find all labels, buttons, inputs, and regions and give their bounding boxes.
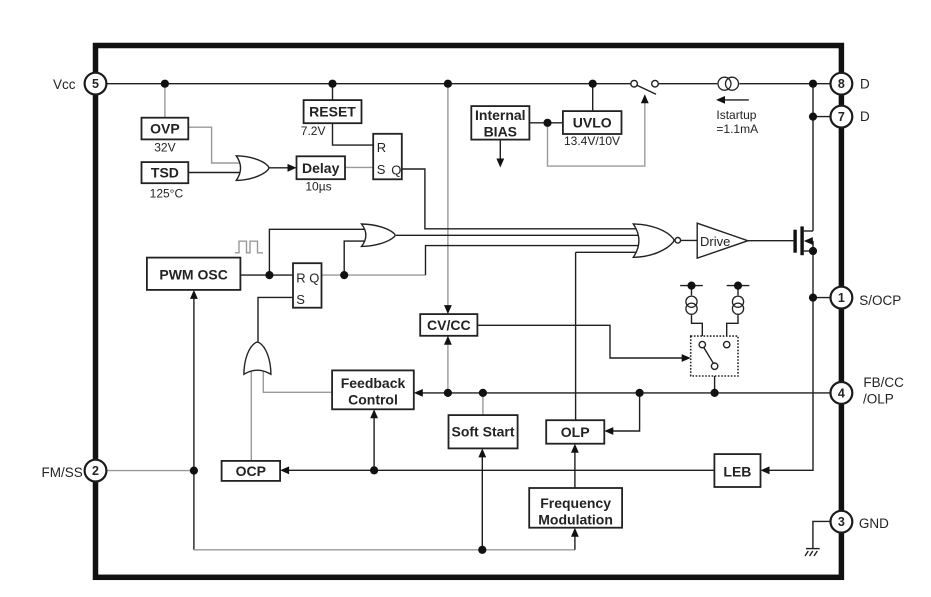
svg-text:10µs: 10µs [305, 179, 331, 193]
svg-text:Feedback: Feedback [341, 375, 406, 391]
svg-text:CV/CC: CV/CC [427, 317, 471, 333]
svg-text:R: R [377, 140, 386, 155]
svg-text:3: 3 [838, 515, 845, 529]
svg-text:=1.1mA: =1.1mA [716, 122, 758, 136]
svg-text:S: S [296, 292, 305, 307]
svg-text:OLP: OLP [561, 424, 590, 440]
svg-text:7.2V: 7.2V [301, 124, 326, 138]
svg-text:Internal: Internal [475, 107, 526, 123]
svg-text:4: 4 [838, 386, 845, 400]
svg-text:R: R [296, 270, 305, 285]
svg-text:S: S [377, 162, 386, 177]
svg-text:125°C: 125°C [150, 187, 184, 201]
svg-text:8: 8 [838, 77, 845, 91]
svg-text:2: 2 [92, 464, 99, 478]
svg-text:Vcc: Vcc [53, 77, 76, 92]
svg-text:RESET: RESET [309, 104, 356, 120]
svg-text:FB/CC: FB/CC [863, 375, 904, 390]
svg-text:UVLO: UVLO [573, 115, 612, 131]
svg-text:Control: Control [348, 392, 398, 408]
svg-text:13.4V/10V: 13.4V/10V [564, 134, 620, 148]
svg-text:GND: GND [859, 516, 889, 531]
svg-text:LEB: LEB [723, 464, 751, 480]
svg-text:Delay: Delay [302, 160, 340, 176]
svg-text:Frequency: Frequency [540, 495, 611, 511]
svg-text:OVP: OVP [150, 121, 180, 137]
svg-text:Soft Start: Soft Start [452, 424, 515, 440]
svg-text:1: 1 [838, 291, 845, 305]
svg-text:32V: 32V [154, 141, 175, 155]
svg-text:PWM OSC: PWM OSC [159, 267, 227, 283]
svg-text:Q: Q [391, 162, 401, 177]
svg-text:FM/SS: FM/SS [42, 465, 83, 480]
svg-text:S/OCP: S/OCP [859, 293, 901, 308]
svg-text:Istartup: Istartup [716, 108, 756, 122]
svg-text:5: 5 [92, 77, 99, 91]
svg-text:D: D [860, 109, 870, 124]
svg-text:OCP: OCP [236, 463, 266, 479]
svg-text:TSD: TSD [151, 165, 179, 181]
svg-text:Drive: Drive [700, 234, 730, 249]
svg-text:Q: Q [309, 270, 319, 285]
svg-text:/OLP: /OLP [863, 391, 894, 406]
svg-text:D: D [860, 76, 870, 91]
svg-text:7: 7 [838, 110, 845, 124]
svg-text:Modulation: Modulation [538, 512, 613, 528]
svg-text:BIAS: BIAS [484, 123, 517, 139]
